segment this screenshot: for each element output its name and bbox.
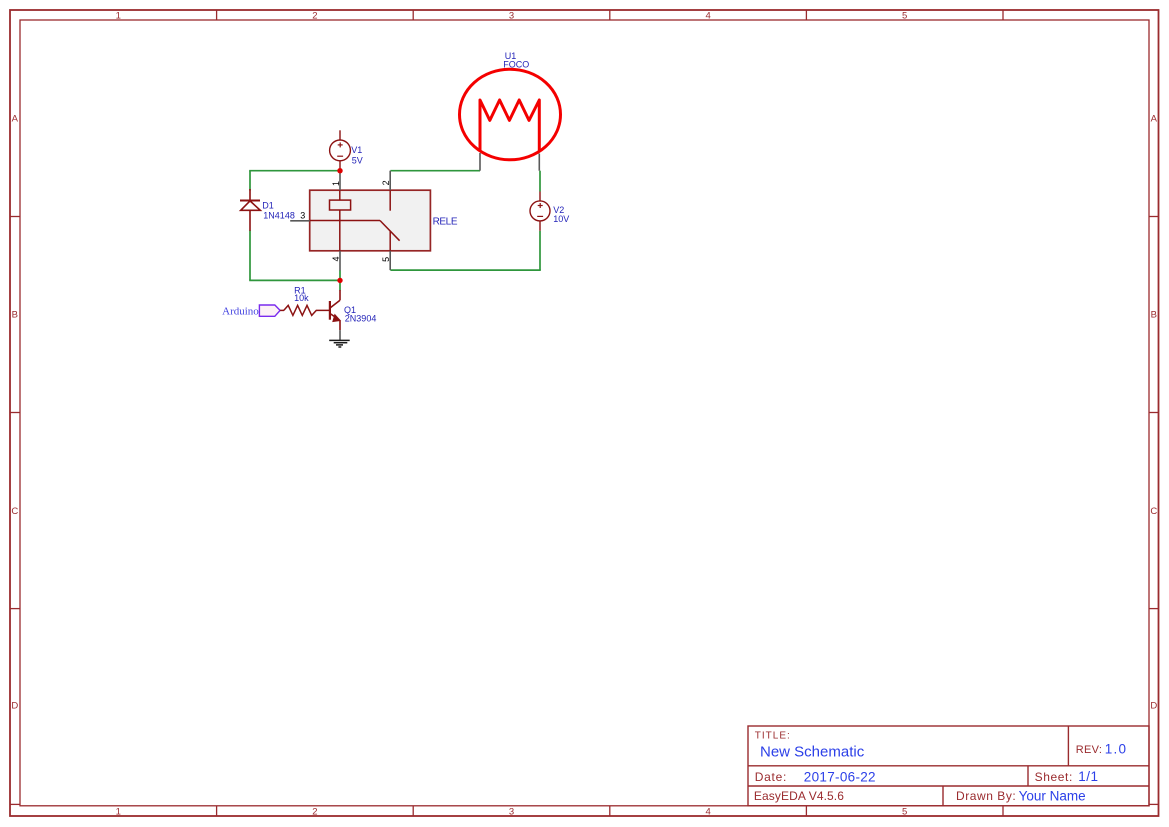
- label V1: [351, 145, 363, 165]
- svg-text:D: D: [1150, 701, 1157, 712]
- label V2: [553, 205, 569, 224]
- relay coil internal wire: [339, 190, 341, 200]
- svg-text:Drawn By:: Drawn By:: [956, 789, 1016, 803]
- relay switch blade: [380, 221, 400, 241]
- pin 2: [389, 171, 391, 191]
- lamp U1: [460, 69, 561, 160]
- voltage source V1: [330, 130, 351, 168]
- relay RELE body: [310, 190, 431, 251]
- svg-text:10k: 10k: [294, 293, 309, 303]
- svg-text:1: 1: [331, 181, 341, 186]
- svg-text:5V: 5V: [352, 155, 363, 165]
- label R1: [294, 286, 309, 303]
- wire left vertical top (diode to top rail): [249, 171, 251, 191]
- svg-text:5: 5: [381, 257, 391, 262]
- voltage source V2: [530, 192, 550, 231]
- svg-text:C: C: [11, 506, 18, 517]
- svg-text:2017-06-22: 2017-06-22: [804, 769, 876, 784]
- label D1: [262, 200, 295, 220]
- lamp U1 pin stubs: [480, 153, 539, 171]
- svg-text:5: 5: [902, 11, 907, 22]
- svg-text:Your Name: Your Name: [1019, 789, 1086, 804]
- svg-text:1: 1: [116, 807, 121, 818]
- svg-text:TITLE:: TITLE:: [755, 730, 791, 741]
- relay pin5 internal: [389, 231, 391, 251]
- svg-text:1: 1: [116, 11, 121, 22]
- wire lamp right to V2: [539, 171, 541, 192]
- svg-text:4: 4: [705, 11, 710, 22]
- pin 5: [389, 251, 391, 270]
- junction node bottom: [337, 278, 342, 283]
- wire top rail right: [390, 170, 480, 172]
- svg-text:D: D: [11, 701, 18, 712]
- wire flag to R1: [280, 309, 284, 311]
- svg-text:1/1: 1/1: [1078, 769, 1098, 784]
- svg-text:2: 2: [312, 11, 317, 22]
- wire top rail left: [249, 170, 340, 172]
- wire junction to Q1 collector: [339, 280, 341, 290]
- svg-text:C: C: [1150, 506, 1157, 517]
- pin 1: [339, 173, 341, 191]
- svg-text:A: A: [12, 113, 19, 124]
- wire V2 bottom: [539, 231, 541, 270]
- svg-text:3: 3: [300, 210, 305, 220]
- wire bottom rail left: [249, 279, 340, 281]
- svg-text:REV:: REV:: [1076, 744, 1102, 756]
- wire left vertical bottom: [249, 230, 251, 280]
- svg-text:RELE: RELE: [433, 217, 458, 228]
- svg-text:V1: V1: [351, 145, 362, 155]
- svg-text:Arduino: Arduino: [222, 305, 259, 317]
- svg-text:D1: D1: [262, 200, 274, 210]
- svg-text:2: 2: [381, 180, 391, 185]
- svg-text:2: 2: [312, 807, 317, 818]
- resistor R1: [284, 305, 330, 315]
- label Q1: [344, 305, 376, 324]
- svg-text:5: 5: [902, 807, 907, 818]
- svg-text:EasyEDA V4.5.6: EasyEDA V4.5.6: [754, 789, 844, 803]
- svg-text:Date:: Date:: [755, 770, 787, 784]
- svg-text:Sheet:: Sheet:: [1035, 770, 1073, 784]
- relay coil: [330, 200, 351, 210]
- net flag Arduino: [259, 305, 280, 316]
- svg-text:B: B: [12, 310, 18, 321]
- svg-text:A: A: [1151, 113, 1158, 124]
- pin 3: [290, 220, 310, 222]
- label U1: [503, 51, 529, 69]
- relay switch common: [310, 220, 380, 222]
- ground: [339, 330, 341, 340]
- wire bottom rail right: [390, 269, 540, 271]
- diode D1: [240, 189, 260, 231]
- relay pin2 internal: [389, 190, 391, 211]
- svg-text:4: 4: [705, 807, 710, 818]
- svg-text:B: B: [1151, 310, 1157, 321]
- svg-text:1.0: 1.0: [1105, 742, 1127, 757]
- wire pin4 to junction: [339, 270, 341, 280]
- svg-text:2N3904: 2N3904: [345, 314, 377, 324]
- svg-text:FOCO: FOCO: [503, 60, 529, 70]
- transistor Q1: [330, 290, 340, 330]
- pin 4: [339, 251, 341, 271]
- junction node top: [337, 168, 342, 173]
- svg-text:3: 3: [509, 11, 514, 22]
- svg-text:3: 3: [509, 807, 514, 818]
- svg-text:4: 4: [331, 256, 341, 261]
- title block: [748, 726, 1149, 806]
- svg-text:1N4148: 1N4148: [263, 210, 295, 220]
- svg-text:10V: 10V: [553, 214, 569, 224]
- svg-text:New Schematic: New Schematic: [760, 744, 865, 761]
